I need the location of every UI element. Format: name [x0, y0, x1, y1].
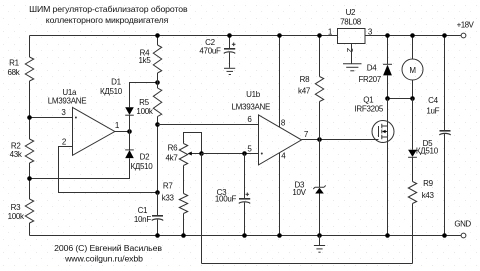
resistor R4 — [153, 36, 161, 89]
zener D3 — [313, 140, 325, 236]
ground below D3 — [314, 236, 325, 253]
svg-text:LM393ANE: LM393ANE — [232, 103, 271, 112]
node +18V terminal — [461, 33, 466, 38]
motor M — [402, 36, 423, 99]
op-amp U1b — [259, 115, 302, 165]
wire top rail right — [365, 35, 461, 37]
svg-text:КД510: КД510 — [131, 162, 154, 171]
svg-text:R7: R7 — [163, 182, 173, 191]
node U1a output junction — [127, 129, 132, 134]
svg-text:78L08: 78L08 — [340, 18, 362, 27]
diode D2 — [30, 132, 134, 179]
svg-text:Q1: Q1 — [363, 95, 374, 104]
svg-text:100uF: 100uF — [215, 194, 237, 203]
svg-text:КД510: КД510 — [416, 147, 439, 156]
wire U1b output to gate — [302, 139, 379, 141]
wire left rail segments — [29, 36, 31, 236]
svg-text:КД510: КД510 — [100, 87, 123, 96]
node C1 bottom rail junction — [155, 233, 160, 238]
svg-text:R6: R6 — [168, 143, 178, 152]
ground C2 — [224, 68, 235, 74]
svg-text:1k5: 1k5 — [139, 56, 152, 65]
node motor bottom junction — [410, 96, 415, 101]
node C2 top rail junction — [227, 33, 232, 38]
resistor R3 — [25, 199, 33, 223]
svg-text:D4: D4 — [367, 63, 377, 72]
wire pin 8 — [279, 36, 281, 128]
resistor R5 — [153, 88, 161, 193]
resistor R9 — [408, 182, 416, 264]
node R2-R3 junction — [27, 176, 32, 181]
svg-text:43k: 43k — [10, 150, 23, 159]
svg-text:D1: D1 — [111, 77, 121, 86]
capacitor C1 — [152, 193, 163, 236]
node D4 anode junction — [385, 96, 390, 101]
wire pin2 U1a feedback — [59, 147, 158, 193]
svg-text:D2: D2 — [140, 152, 150, 161]
resistor R1 — [25, 57, 33, 81]
svg-text:100k: 100k — [136, 107, 153, 116]
wire pin 4 — [279, 153, 281, 236]
wire U1a output — [115, 131, 130, 133]
capacitor C3 — [239, 154, 250, 236]
svg-text:IRF3205: IRF3205 — [355, 105, 384, 114]
svg-text:C1: C1 — [138, 206, 148, 215]
svg-text:k47: k47 — [298, 86, 311, 95]
wire pin3 U1a — [30, 117, 73, 119]
svg-text:R8: R8 — [300, 75, 310, 84]
svg-text:470uF: 470uF — [199, 46, 221, 55]
resistor R7 — [179, 166, 187, 236]
potentiometer R6 — [179, 133, 201, 166]
svg-text:1uF: 1uF — [426, 107, 439, 116]
op-amp U1a — [73, 107, 115, 155]
wire wiper down to bottom link — [201, 154, 203, 264]
node R1-R2 junction — [27, 115, 32, 120]
wire R5 junction to pin 6 — [158, 124, 259, 126]
diode D5 — [408, 99, 417, 182]
svg-text:+18V: +18V — [457, 20, 475, 29]
svg-text:FR207: FR207 — [358, 75, 381, 84]
svg-text:10V: 10V — [292, 188, 306, 197]
node R4 top rail junction — [155, 33, 160, 38]
svg-text:R3: R3 — [11, 203, 21, 212]
svg-text:R9: R9 — [423, 179, 433, 188]
wire bottom rail — [30, 235, 461, 237]
node pin7-R8 junction — [317, 137, 322, 142]
diode D4 — [383, 36, 392, 99]
svg-text:4k7: 4k7 — [166, 153, 179, 162]
svg-text:U1b: U1b — [246, 90, 261, 99]
svg-text:GND: GND — [454, 220, 471, 229]
node R5 bottom junction — [155, 122, 160, 127]
svg-text:ШИМ регулятор-стабилизатор обо: ШИМ регулятор-стабилизатор оборотов — [29, 4, 188, 14]
svg-text:C4: C4 — [428, 96, 438, 105]
node R4-R5 junction — [155, 80, 160, 85]
diode D1 — [125, 107, 134, 131]
svg-text:U2: U2 — [346, 8, 356, 17]
wire bottom feedback link — [202, 263, 413, 265]
node GND terminal — [461, 233, 466, 238]
svg-text:коллекторного микродвигателя: коллекторного микродвигателя — [46, 15, 169, 25]
wire D1 branch top — [130, 83, 158, 108]
node R6 wiper junction — [199, 151, 204, 156]
wire drain node — [388, 98, 413, 100]
svg-text:LM393ANE: LM393ANE — [48, 97, 87, 106]
node R7 bottom rail junction — [181, 233, 186, 238]
svg-text:U1a: U1a — [62, 88, 77, 97]
svg-text:R5: R5 — [139, 98, 149, 107]
transistor Q1 — [372, 99, 394, 236]
svg-text:10nF: 10nF — [134, 215, 151, 224]
node C3 junction — [242, 151, 247, 156]
ground U2 — [343, 64, 362, 71]
svg-text:M: M — [409, 66, 416, 75]
wire U2 pin2 — [351, 44, 353, 64]
resistor R8 — [315, 36, 323, 140]
svg-text:R1: R1 — [9, 59, 19, 68]
svg-text:k43: k43 — [422, 191, 435, 200]
capacitor C2 — [224, 36, 236, 68]
node feedback junction — [155, 190, 160, 195]
svg-text:k33: k33 — [162, 193, 175, 202]
wire pin5 from wiper — [202, 153, 259, 155]
svg-text:100k: 100k — [8, 212, 25, 221]
svg-text:68k: 68k — [8, 68, 21, 77]
svg-text:www.coilgun.ru/exbb: www.coilgun.ru/exbb — [64, 253, 143, 263]
voltage regulator U2 — [338, 29, 366, 44]
wire top rail left — [30, 35, 338, 37]
resistor R2 — [25, 139, 33, 163]
svg-text:2006 (С) Евгений Васильев: 2006 (С) Евгений Васильев — [54, 243, 162, 253]
capacitor C4 — [439, 36, 450, 236]
